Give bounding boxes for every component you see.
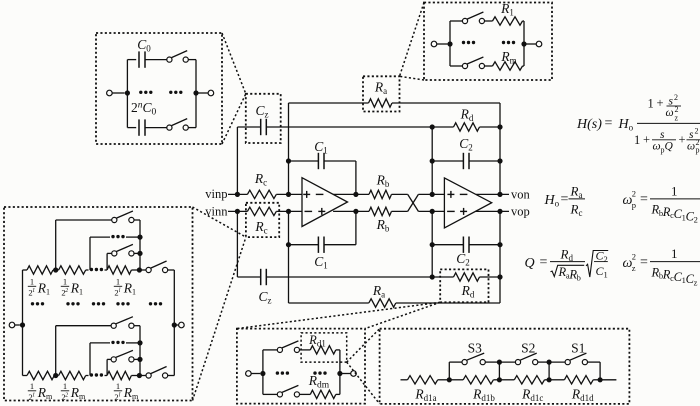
svg-text:RbRcC1Cz: RbRcC1Cz: [651, 265, 698, 287]
svg-text:Rd: Rd: [460, 107, 474, 124]
svg-text:Q: Q: [665, 141, 674, 153]
svg-text:C2: C2: [456, 251, 470, 268]
svg-text:Rm: Rm: [70, 385, 86, 401]
svg-text:Rdm: Rdm: [308, 373, 330, 391]
svg-text:R1: R1: [37, 281, 50, 297]
svg-text:C1: C1: [314, 139, 328, 156]
svg-text:2: 2: [65, 288, 68, 294]
svg-text:vinp: vinp: [205, 187, 227, 201]
svg-text:R1: R1: [70, 281, 83, 297]
svg-text:1: 1: [116, 381, 120, 391]
svg-text:Rd1b: Rd1b: [472, 387, 495, 404]
svg-text:z: z: [675, 114, 679, 123]
svg-text:s: s: [669, 96, 674, 108]
svg-text:=: =: [640, 192, 648, 207]
svg-text:2: 2: [674, 93, 678, 102]
svg-text:s: s: [689, 129, 694, 141]
svg-text:S3: S3: [468, 341, 483, 356]
svg-text:Rm: Rm: [37, 385, 53, 401]
svg-text:s: s: [660, 129, 665, 141]
svg-text:Rb: Rb: [376, 173, 390, 190]
svg-text:1: 1: [32, 393, 35, 399]
svg-text:C2: C2: [459, 136, 473, 153]
svg-text:+: +: [643, 133, 650, 147]
svg-text:Rc: Rc: [570, 202, 583, 219]
svg-text:1: 1: [671, 246, 678, 261]
svg-text:1: 1: [671, 184, 678, 199]
svg-text:Rd1c: Rd1c: [521, 387, 543, 404]
svg-text:Rd: Rd: [461, 283, 475, 300]
svg-text:ω: ω: [666, 107, 674, 119]
svg-text:Q: Q: [525, 256, 535, 271]
svg-text:Rc: Rc: [254, 219, 267, 236]
svg-text:H(s): H(s): [576, 117, 602, 132]
svg-text:2nC0: 2nC0: [131, 100, 157, 118]
svg-text:Ra: Ra: [374, 80, 387, 97]
svg-text:Rm: Rm: [123, 385, 139, 401]
svg-text:S1: S1: [571, 341, 585, 356]
svg-text:l: l: [119, 288, 121, 294]
svg-text:2: 2: [632, 189, 636, 199]
svg-text:z: z: [632, 263, 636, 273]
svg-text:2: 2: [632, 252, 636, 262]
svg-text:R1: R1: [123, 281, 136, 297]
svg-text:l: l: [119, 393, 121, 399]
svg-text:Ho: Ho: [544, 193, 560, 209]
svg-text:vinn: vinn: [205, 204, 228, 218]
svg-text:S2: S2: [521, 341, 535, 356]
svg-text:C1: C1: [596, 264, 608, 280]
svg-text:2: 2: [675, 105, 679, 114]
svg-text:1: 1: [648, 97, 654, 111]
svg-text:=: =: [540, 255, 548, 270]
svg-text:ω: ω: [687, 141, 695, 153]
svg-text:=: =: [605, 116, 613, 131]
svg-text:+: +: [679, 133, 686, 147]
svg-text:=: =: [640, 255, 648, 270]
svg-text:Rd: Rd: [560, 246, 574, 263]
svg-text:Rd1a: Rd1a: [414, 387, 436, 404]
svg-text:ω: ω: [653, 141, 661, 153]
svg-text:R1: R1: [500, 1, 514, 18]
svg-text:Ra: Ra: [570, 184, 583, 201]
svg-text:Cz: Cz: [258, 289, 271, 306]
svg-text:1: 1: [63, 381, 67, 391]
svg-text:Rc: Rc: [254, 171, 267, 188]
svg-text:vop: vop: [511, 205, 530, 219]
svg-text:von: von: [511, 187, 531, 201]
svg-text:Rd1: Rd1: [308, 333, 326, 349]
svg-text:RbRcC1C2: RbRcC1C2: [651, 203, 698, 225]
svg-text:1: 1: [116, 277, 120, 287]
svg-text:C1: C1: [314, 254, 328, 271]
svg-text:1: 1: [32, 288, 35, 294]
svg-text:+: +: [657, 96, 664, 110]
svg-text:Rd1d: Rd1d: [571, 387, 594, 404]
svg-text:Rb: Rb: [376, 217, 390, 234]
svg-text:RaRb: RaRb: [558, 265, 581, 283]
svg-text:Cz: Cz: [255, 103, 268, 120]
svg-text:2: 2: [695, 127, 699, 136]
svg-text:1: 1: [30, 277, 34, 287]
svg-text:2: 2: [696, 138, 700, 147]
svg-text:Ra: Ra: [372, 283, 385, 300]
svg-text:=: =: [561, 192, 569, 207]
svg-text:1: 1: [634, 133, 640, 147]
svg-text:2: 2: [65, 393, 68, 399]
svg-text:Rm: Rm: [500, 49, 516, 66]
svg-text:1: 1: [63, 277, 67, 287]
svg-text:C0: C0: [137, 37, 151, 54]
svg-text:Ho: Ho: [618, 117, 634, 133]
svg-text:p: p: [632, 200, 636, 210]
svg-text:1: 1: [30, 381, 34, 391]
